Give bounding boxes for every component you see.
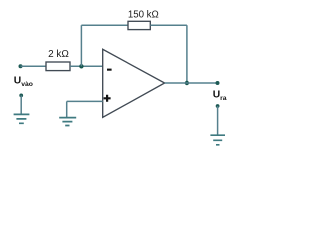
svg-text:150 kΩ: 150 kΩ bbox=[128, 9, 159, 20]
op-amp inverting pin minus sign bbox=[107, 69, 112, 71]
ground middle bbox=[59, 118, 76, 126]
resistor R1 2 kΩ bbox=[46, 62, 70, 71]
input ground stub dot bbox=[19, 94, 23, 98]
svg-text:2 kΩ: 2 kΩ bbox=[48, 49, 69, 60]
resistor R2 150 kΩ bbox=[128, 21, 150, 29]
wire output ground lead bbox=[217, 106, 219, 135]
op-amp U1 triangle bbox=[103, 49, 165, 117]
wire feedback left vertical bbox=[80, 25, 82, 66]
wire output bbox=[165, 82, 218, 84]
junction node A dot bbox=[79, 64, 83, 68]
wire input to R1 bbox=[21, 65, 47, 67]
ground left bbox=[14, 114, 30, 123]
wire input ground lead bbox=[20, 95, 22, 114]
wire R1 to op-amp inverting input bbox=[70, 65, 103, 67]
output ground stub dot bbox=[216, 104, 220, 108]
input terminal dot U_vao bbox=[19, 64, 23, 68]
wire noninverting input bbox=[67, 100, 103, 102]
ground right bbox=[210, 135, 225, 145]
junction node output dot bbox=[185, 81, 189, 85]
wire feedback right vertical bbox=[186, 25, 188, 83]
wire feedback top left segment bbox=[81, 24, 128, 26]
op-amp noninverting pin plus sign bbox=[104, 95, 111, 102]
output terminal dot U_ra bbox=[216, 81, 220, 85]
wire feedback top right segment bbox=[150, 24, 187, 26]
wire noninverting down lead bbox=[66, 101, 68, 117]
